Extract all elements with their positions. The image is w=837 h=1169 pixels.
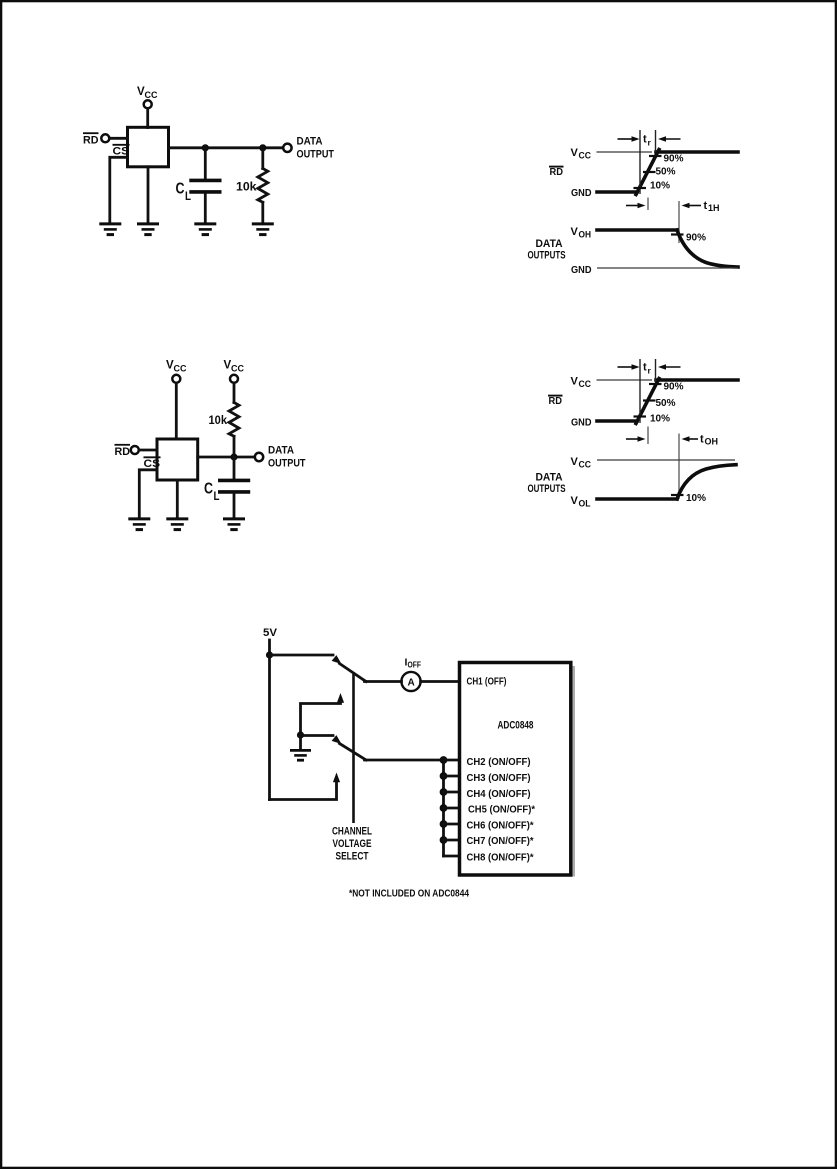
resistor 10k (circuit 1) bbox=[258, 169, 268, 203]
svg-text:90%: 90% bbox=[686, 233, 706, 244]
Ioff label bbox=[405, 657, 422, 670]
svg-text:CH4 (ON/OFF): CH4 (ON/OFF) bbox=[467, 788, 531, 800]
svg-text:RD: RD bbox=[115, 446, 131, 458]
svg-text:t: t bbox=[700, 434, 704, 446]
tr right arrow (timing 2) bbox=[658, 364, 681, 370]
DATA OUTPUTS label (timing 1) bbox=[528, 238, 566, 262]
wire node to CL bbox=[204, 148, 207, 179]
svg-text:OH: OH bbox=[579, 230, 592, 240]
svg-text:CH2 (ON/OFF): CH2 (ON/OFF) bbox=[467, 756, 531, 768]
wire CL to ground (circuit 2) bbox=[233, 494, 236, 518]
svg-text:t: t bbox=[643, 134, 647, 146]
tOH arrow (timing 2) bbox=[682, 436, 699, 442]
switch 2 lower contact wire to 5V bbox=[270, 780, 337, 800]
arrow to 50% line (timing 1) bbox=[626, 203, 646, 209]
wire bus to CH5 pin bbox=[444, 807, 460, 810]
svg-text:10k: 10k bbox=[236, 180, 257, 194]
arrow to 50% line (timing 2) bbox=[626, 436, 646, 442]
output wire (circuit 1) bbox=[169, 146, 284, 149]
svg-text:CH3 (ON/OFF): CH3 (ON/OFF) bbox=[467, 772, 531, 784]
svg-text:VOLTAGE: VOLTAGE bbox=[333, 838, 372, 850]
wire bus to CH2 pin bbox=[444, 759, 460, 762]
svg-text:V: V bbox=[571, 226, 579, 238]
CHANNEL VOLTAGE SELECT label bbox=[332, 826, 372, 863]
switch 1 lower contact wire to ground node bbox=[301, 701, 341, 736]
DUT box U1 (circuit 1) bbox=[128, 127, 169, 167]
wire bus to CH7 pin bbox=[444, 839, 460, 842]
wire CS to box and down (circuit 2) bbox=[139, 470, 157, 518]
svg-text:OL: OL bbox=[579, 499, 591, 509]
wire 10k to node (circuit 2) bbox=[233, 436, 236, 457]
Vcc reference line upper (timing 2) bbox=[597, 379, 653, 381]
svg-text:*NOT INCLUDED ON ADC0844: *NOT INCLUDED ON ADC0844 bbox=[349, 888, 469, 900]
svg-text:OUTPUTS: OUTPUTS bbox=[528, 483, 566, 495]
Vol label (timing 2) bbox=[571, 495, 591, 509]
CL value label (circuit 1) bbox=[176, 181, 192, 204]
switch 2 upper contact arrowhead bbox=[332, 735, 342, 744]
svg-text:OH: OH bbox=[705, 437, 719, 447]
resistor 10k (circuit 2) bbox=[229, 403, 239, 437]
svg-text:DATA: DATA bbox=[536, 472, 563, 484]
GND reference line lower (timing 1) bbox=[597, 267, 738, 269]
bus junction CH3 bbox=[440, 772, 448, 780]
svg-text:V: V bbox=[571, 147, 579, 159]
output node (circuit 2) bbox=[230, 453, 237, 460]
wire ammeter to CH1 bbox=[421, 680, 460, 683]
DATA OUTPUT label (circuit 1) bbox=[297, 136, 335, 161]
10% tick (timing 1) bbox=[634, 187, 647, 189]
ground under box (circuit 1) bbox=[137, 224, 159, 235]
Vcc terminal (circuit 1) bbox=[144, 100, 152, 108]
10% tick lower (timing 2) bbox=[671, 494, 684, 496]
Vcc label right (circuit 2) bbox=[224, 360, 245, 374]
svg-text:GND: GND bbox=[571, 417, 592, 429]
5V vertical wire bbox=[268, 640, 271, 800]
90% vertical line (timing 2) bbox=[655, 359, 657, 381]
output decay curve (timing 1) bbox=[677, 230, 738, 267]
ammeter A bbox=[401, 672, 420, 691]
ground under CS wire (circuit 1) bbox=[99, 224, 121, 235]
switch 1 lower contact arrowhead bbox=[337, 693, 344, 703]
switch 2 arm bbox=[340, 744, 367, 761]
RD high level wire (timing 1) bbox=[656, 150, 738, 154]
svg-text:50%: 50% bbox=[656, 398, 676, 409]
Vol level wire (timing 2) bbox=[597, 497, 677, 501]
DATA OUTPUT label (circuit 2) bbox=[268, 445, 306, 470]
wire CS to box and down bbox=[110, 157, 128, 222]
svg-text:L: L bbox=[214, 489, 220, 503]
wire bus to CH8 pin bbox=[444, 855, 460, 858]
RD label (timing 1) bbox=[549, 167, 564, 178]
svg-text:V: V bbox=[571, 456, 579, 468]
svg-text:10k: 10k bbox=[209, 413, 228, 427]
10% vertical line (timing 1) bbox=[639, 130, 641, 194]
wire box bottom to ground (circuit 2) bbox=[176, 480, 179, 518]
svg-text:C: C bbox=[204, 481, 213, 498]
svg-text:GND: GND bbox=[571, 187, 592, 199]
output wire (circuit 2) bbox=[198, 456, 255, 459]
svg-text:ADC0848: ADC0848 bbox=[498, 720, 534, 732]
Vcc label left (circuit 2) bbox=[166, 360, 187, 374]
bus junction CH5 bbox=[440, 804, 448, 812]
ADC0848 box shadow bbox=[573, 666, 575, 877]
wire 10k to ground bbox=[261, 202, 264, 222]
RD low level wire (timing 2) bbox=[597, 419, 637, 423]
svg-text:90%: 90% bbox=[664, 382, 684, 393]
Vcc terminal right (circuit 2) bbox=[230, 375, 238, 383]
wire bus to CH3 pin bbox=[444, 775, 460, 778]
svg-text:CH6 (ON/OFF)*: CH6 (ON/OFF)* bbox=[467, 820, 535, 832]
RD rising edge ramp (timing 1) bbox=[636, 150, 659, 195]
svg-text:CC: CC bbox=[231, 364, 244, 374]
svg-text:RD: RD bbox=[549, 396, 563, 407]
wire switch 1 to ammeter bbox=[365, 680, 402, 683]
90% tick (timing 2) bbox=[649, 383, 662, 385]
node 5V bbox=[266, 651, 273, 658]
Vcc reference line (timing 1) bbox=[597, 151, 653, 153]
bus junction CH6 bbox=[440, 820, 448, 828]
svg-text:A: A bbox=[408, 678, 415, 689]
CL value label (circuit 2) bbox=[204, 481, 220, 504]
svg-text:V: V bbox=[571, 495, 579, 507]
wire CL to ground bbox=[204, 194, 207, 223]
DUT box U2 (circuit 2) bbox=[157, 439, 198, 480]
svg-text:CC: CC bbox=[579, 151, 592, 161]
ADC0848 box bbox=[460, 663, 571, 876]
50% extension line below (timing 2) bbox=[647, 427, 649, 445]
wire RD to box bbox=[110, 137, 128, 140]
bus junction CH7 bbox=[440, 836, 448, 844]
DATA OUTPUT terminal (circuit 1) bbox=[283, 144, 291, 152]
ground under CS wire (circuit 2) bbox=[128, 519, 150, 530]
svg-text:1H: 1H bbox=[708, 203, 720, 213]
svg-text:DATA: DATA bbox=[297, 136, 323, 148]
svg-text:50%: 50% bbox=[656, 167, 676, 178]
gang line CHANNEL VOLTAGE SELECT bbox=[352, 672, 355, 823]
svg-text:CC: CC bbox=[579, 379, 592, 389]
svg-text:CC: CC bbox=[579, 460, 592, 470]
ground under box (circuit 2) bbox=[166, 519, 188, 530]
RD low level wire (timing 1) bbox=[597, 190, 637, 194]
RD label (timing 2) bbox=[548, 396, 563, 407]
wire Vcc to box (circuit 2) bbox=[175, 383, 178, 439]
tr label (timing 1) bbox=[643, 134, 652, 148]
Voh level wire (timing 1) bbox=[597, 228, 677, 232]
svg-text:CH1 (OFF): CH1 (OFF) bbox=[467, 676, 507, 688]
capacitor CL (circuit 2) bbox=[218, 480, 250, 492]
Vcc terminal left (circuit 2) bbox=[172, 375, 180, 383]
t1H arrow (timing 1) bbox=[682, 203, 702, 209]
50% tick (timing 1) bbox=[643, 171, 656, 173]
svg-text:DATA: DATA bbox=[268, 445, 294, 457]
wire bus to CH6 pin bbox=[444, 823, 460, 826]
wire box bottom to ground bbox=[147, 167, 150, 223]
switch 1 arm bbox=[340, 664, 367, 682]
RD label (circuit 1) bbox=[83, 133, 99, 146]
Vcc label (timing 1) bbox=[571, 147, 592, 161]
DATA OUTPUTS label (timing 2) bbox=[528, 472, 566, 496]
CS label (circuit 2) bbox=[144, 457, 161, 470]
svg-text:CHANNEL: CHANNEL bbox=[332, 826, 372, 838]
svg-text:CH8 (ON/OFF)*: CH8 (ON/OFF)* bbox=[467, 852, 535, 864]
RD high level wire (timing 2) bbox=[656, 378, 738, 382]
t1H label (timing 1) bbox=[704, 200, 720, 213]
wire node to 10k resistor bbox=[261, 148, 264, 169]
RD label (circuit 2) bbox=[115, 445, 131, 458]
wire bus to CH4 pin bbox=[444, 791, 460, 794]
switch 1 upper contact arrowhead bbox=[332, 655, 342, 664]
svg-text:CC: CC bbox=[174, 364, 187, 374]
svg-text:10%: 10% bbox=[686, 493, 706, 504]
svg-text:10%: 10% bbox=[650, 414, 670, 425]
bus junction CH4 bbox=[440, 788, 448, 796]
ground under CL (circuit 2) bbox=[223, 519, 245, 530]
90% tick lower (timing 1) bbox=[671, 233, 684, 235]
bus junction CH2 bbox=[440, 756, 448, 764]
tOH measure line (timing 2) bbox=[678, 434, 680, 500]
ground node dot bbox=[297, 731, 304, 738]
svg-text:CC: CC bbox=[145, 90, 158, 100]
svg-text:OUTPUT: OUTPUT bbox=[297, 149, 335, 161]
RD terminal (circuit 1) bbox=[101, 134, 109, 142]
Vcc reference line lower (timing 2) bbox=[597, 459, 735, 461]
output rise curve (timing 2) bbox=[677, 465, 736, 499]
wire Vcc to DUT box bbox=[146, 109, 149, 128]
wire switch 2 to CH2 bus bbox=[365, 759, 444, 762]
Vcc label upper (timing 2) bbox=[571, 376, 592, 390]
svg-text:CS: CS bbox=[113, 146, 130, 158]
90% tick (timing 1) bbox=[649, 155, 662, 157]
svg-text:L: L bbox=[185, 189, 191, 203]
Voh label (timing 1) bbox=[571, 226, 592, 240]
ground under 10k (circuit 1) bbox=[252, 224, 274, 235]
svg-text:90%: 90% bbox=[664, 154, 684, 165]
Vcc label lower (timing 2) bbox=[571, 456, 592, 470]
svg-text:CS: CS bbox=[144, 458, 161, 470]
capacitor CL (circuit 1) bbox=[189, 180, 221, 192]
svg-text:t: t bbox=[643, 362, 647, 374]
tr left arrow (timing 2) bbox=[618, 364, 640, 370]
ground symbol (circuit 3) bbox=[290, 750, 311, 760]
wire node to CL (circuit 2) bbox=[233, 457, 236, 479]
svg-text:OFF: OFF bbox=[408, 660, 422, 670]
svg-text:V: V bbox=[571, 376, 579, 388]
wire ground node to switch 2 contact bbox=[301, 734, 334, 737]
90% vertical line (timing 1) bbox=[655, 130, 657, 152]
Vcc label (circuit 1) bbox=[137, 86, 158, 100]
tr left arrow (timing 1) bbox=[618, 136, 640, 142]
t1H measure line (timing 1) bbox=[678, 201, 680, 243]
svg-text:RD: RD bbox=[83, 135, 99, 147]
ground under CL (circuit 1) bbox=[194, 224, 216, 235]
node at 10k (circuit 1) bbox=[259, 144, 266, 151]
tr right arrow (timing 1) bbox=[658, 136, 681, 142]
10% vertical line (timing 2) bbox=[639, 359, 641, 423]
50% extension line below (timing 1) bbox=[647, 198, 649, 211]
svg-text:RD: RD bbox=[550, 167, 564, 178]
DATA OUTPUT terminal (circuit 2) bbox=[255, 453, 263, 461]
switch 2 lower contact arrowhead bbox=[333, 773, 340, 783]
RD terminal (circuit 2) bbox=[131, 446, 139, 454]
wire ground node to ground symbol bbox=[299, 735, 302, 749]
CS label (circuit 1) bbox=[113, 145, 130, 158]
svg-text:DATA: DATA bbox=[536, 238, 563, 250]
tOH label (timing 2) bbox=[700, 434, 718, 447]
wire Vcc to 10k (circuit 2) bbox=[233, 383, 236, 402]
svg-text:OUTPUT: OUTPUT bbox=[268, 458, 306, 470]
svg-text:SELECT: SELECT bbox=[336, 851, 369, 863]
RD rising edge ramp (timing 2) bbox=[636, 379, 659, 424]
svg-text:CH7 (ON/OFF)*: CH7 (ON/OFF)* bbox=[467, 835, 535, 847]
svg-text:OUTPUTS: OUTPUTS bbox=[528, 250, 566, 262]
bus vertical line bbox=[442, 760, 445, 856]
svg-text:5V: 5V bbox=[263, 627, 278, 639]
10% tick (timing 2) bbox=[634, 415, 647, 417]
wire RD to box (circuit 2) bbox=[139, 449, 157, 452]
svg-text:GND: GND bbox=[571, 264, 592, 276]
wire 5V to switch 1 contact bbox=[270, 654, 334, 657]
50% tick (timing 2) bbox=[643, 399, 656, 401]
svg-text:CH5 (ON/OFF)*: CH5 (ON/OFF)* bbox=[468, 804, 536, 816]
svg-text:t: t bbox=[704, 200, 708, 212]
node at CL (circuit 1) bbox=[202, 144, 209, 151]
tr label (timing 2) bbox=[643, 362, 652, 376]
svg-text:10%: 10% bbox=[650, 181, 670, 192]
svg-text:C: C bbox=[176, 181, 185, 198]
